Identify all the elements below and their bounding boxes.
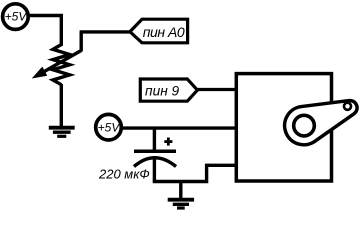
net label "пин 9" (140, 79, 197, 101)
wire: +5V to servo power pin (capacitor junction on it) (121, 126, 239, 129)
svg-text:+5V: +5V (5, 9, 28, 23)
wire: ground drop (179, 182, 182, 200)
servo M1 horn tip hole (344, 103, 351, 110)
ground (bottom) (168, 200, 194, 208)
power +5V supply (middle) (96, 114, 122, 140)
svg-text:+5V: +5V (98, 121, 121, 135)
capacitor C1 curved bottom plate (134, 158, 176, 167)
wire: wiper to pin A0 label (79, 32, 82, 52)
svg-text:220 мкФ: 220 мкФ (98, 167, 150, 182)
svg-text:пин 9: пин 9 (145, 84, 179, 99)
capacitor C1 top plate (134, 149, 176, 153)
ground (left) (49, 128, 75, 137)
servo M1 horn (arm) (285, 101, 357, 145)
servo M1 horn hub hole (294, 115, 315, 136)
wire (80, 30, 131, 33)
potentiometer wiper arrow (33, 51, 81, 78)
wire: +5V supply to potentiometer top (28, 16, 62, 47)
capacitor C1 negative lead (153, 158, 156, 182)
wire: pin 9 label to servo signal pin (196, 88, 238, 91)
capacitor C1 positive lead (153, 128, 156, 151)
wire: potentiometer bottom lead to ground (60, 84, 63, 128)
capacitor C1 plus sign (164, 138, 172, 146)
power +5V supply (left) (3, 4, 29, 30)
svg-text:пин A0: пин A0 (143, 24, 185, 40)
potentiometer R1 (zigzag body) (53, 45, 70, 85)
wire: capacitor to servo ground pin (stepped) (153, 165, 238, 181)
net label "пин A0" (130, 19, 188, 43)
servo M1 body (236, 74, 331, 181)
